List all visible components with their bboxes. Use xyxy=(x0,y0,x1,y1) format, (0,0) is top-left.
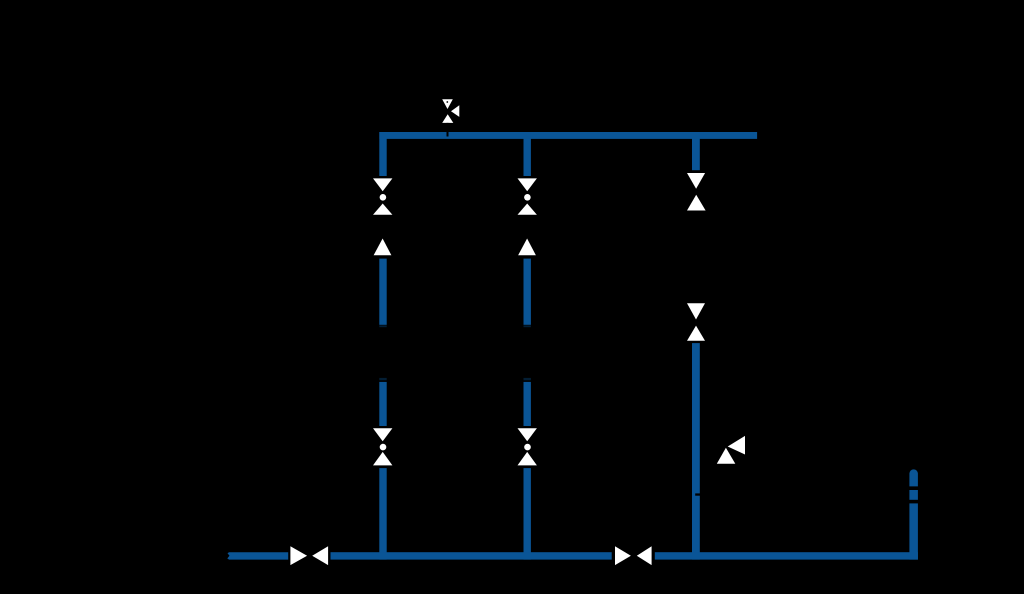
wire: right riser continuation cap xyxy=(909,469,918,486)
valve V1 stem (black, crosses manifold pipe) xyxy=(447,123,449,137)
manual valve MV2 (column 3 lower) upper triangle xyxy=(687,303,705,319)
solenoid valve SV1 ball xyxy=(380,194,387,201)
solenoid valve SV3 (column 2 upper) upper triangle xyxy=(518,178,537,191)
solenoid valve SV2 lower triangle xyxy=(373,452,392,466)
wire: column 1 segment d (to bottom main) xyxy=(379,468,386,559)
solenoid valve SV1 lower triangle xyxy=(373,204,392,215)
wire: column 3 long riser to bottom main xyxy=(692,343,700,559)
solenoid valve SV1 (column 1 upper) upper triangle xyxy=(373,178,392,191)
wire: column 1 gap boundary fades xyxy=(379,325,386,327)
wire: column 2 segment c xyxy=(524,382,531,426)
wire: top manifold pipe xyxy=(379,132,757,139)
wire: right riser pipe xyxy=(909,503,918,559)
wire: bottom main left segment (with break zigzag at left end) xyxy=(227,552,288,559)
gate valve GV2 (bottom main, right) left triangle xyxy=(615,546,631,565)
gate valve GV2 right triangle xyxy=(637,546,652,565)
valve V1 (air release three-way valve) top triangle xyxy=(442,99,453,109)
wire: right riser continuation dash xyxy=(909,490,918,500)
manual valve MV1 (column 3 upper) upper triangle xyxy=(687,173,705,189)
wire: column 2 riser segment a xyxy=(524,132,531,176)
solenoid valve SV2 ball xyxy=(380,444,387,451)
manual valve MV2 lower triangle xyxy=(687,326,705,341)
solenoid valve SV4 lower triangle xyxy=(518,452,537,466)
wire: column 2 segment b xyxy=(524,259,531,325)
solenoid valve SV4 ball xyxy=(524,444,531,451)
gate valve GV1 right triangle xyxy=(312,546,328,565)
wire: column 2 gap boundary fades xyxy=(524,325,531,327)
flow arrow column 2 xyxy=(518,239,536,256)
wire: column 1 segment b xyxy=(379,259,386,325)
solenoid valve SV3 ball xyxy=(524,194,531,201)
solenoid valve SV3 lower triangle xyxy=(518,204,537,215)
angle valve AV1 side triangle xyxy=(728,436,745,455)
wire: column 2 segment d (to bottom main) xyxy=(524,468,531,559)
wire: bottom main middle segment xyxy=(331,552,612,559)
manual valve MV1 lower triangle xyxy=(687,195,706,211)
black tick on column 3 riser xyxy=(695,493,701,495)
valve V1 side triangle xyxy=(451,105,459,117)
angle valve AV1 bottom triangle xyxy=(717,448,736,464)
flow arrow column 1 xyxy=(374,239,392,256)
valve V1 pilot dot xyxy=(446,101,448,103)
gate valve GV1 (bottom main, left) left triangle xyxy=(290,546,307,565)
wire: column 1 segment c xyxy=(379,382,386,426)
wire: bottom main right segment xyxy=(655,552,918,559)
solenoid valve SV2 (column 1 lower) upper triangle xyxy=(373,428,392,441)
wire: column 3 stub from manifold xyxy=(692,132,700,170)
solenoid valve SV4 (column 2 lower) upper triangle xyxy=(518,428,537,441)
wire: column 1 riser segment a (from manifold to valve) xyxy=(379,132,386,176)
valve V1 bottom triangle xyxy=(442,114,453,123)
